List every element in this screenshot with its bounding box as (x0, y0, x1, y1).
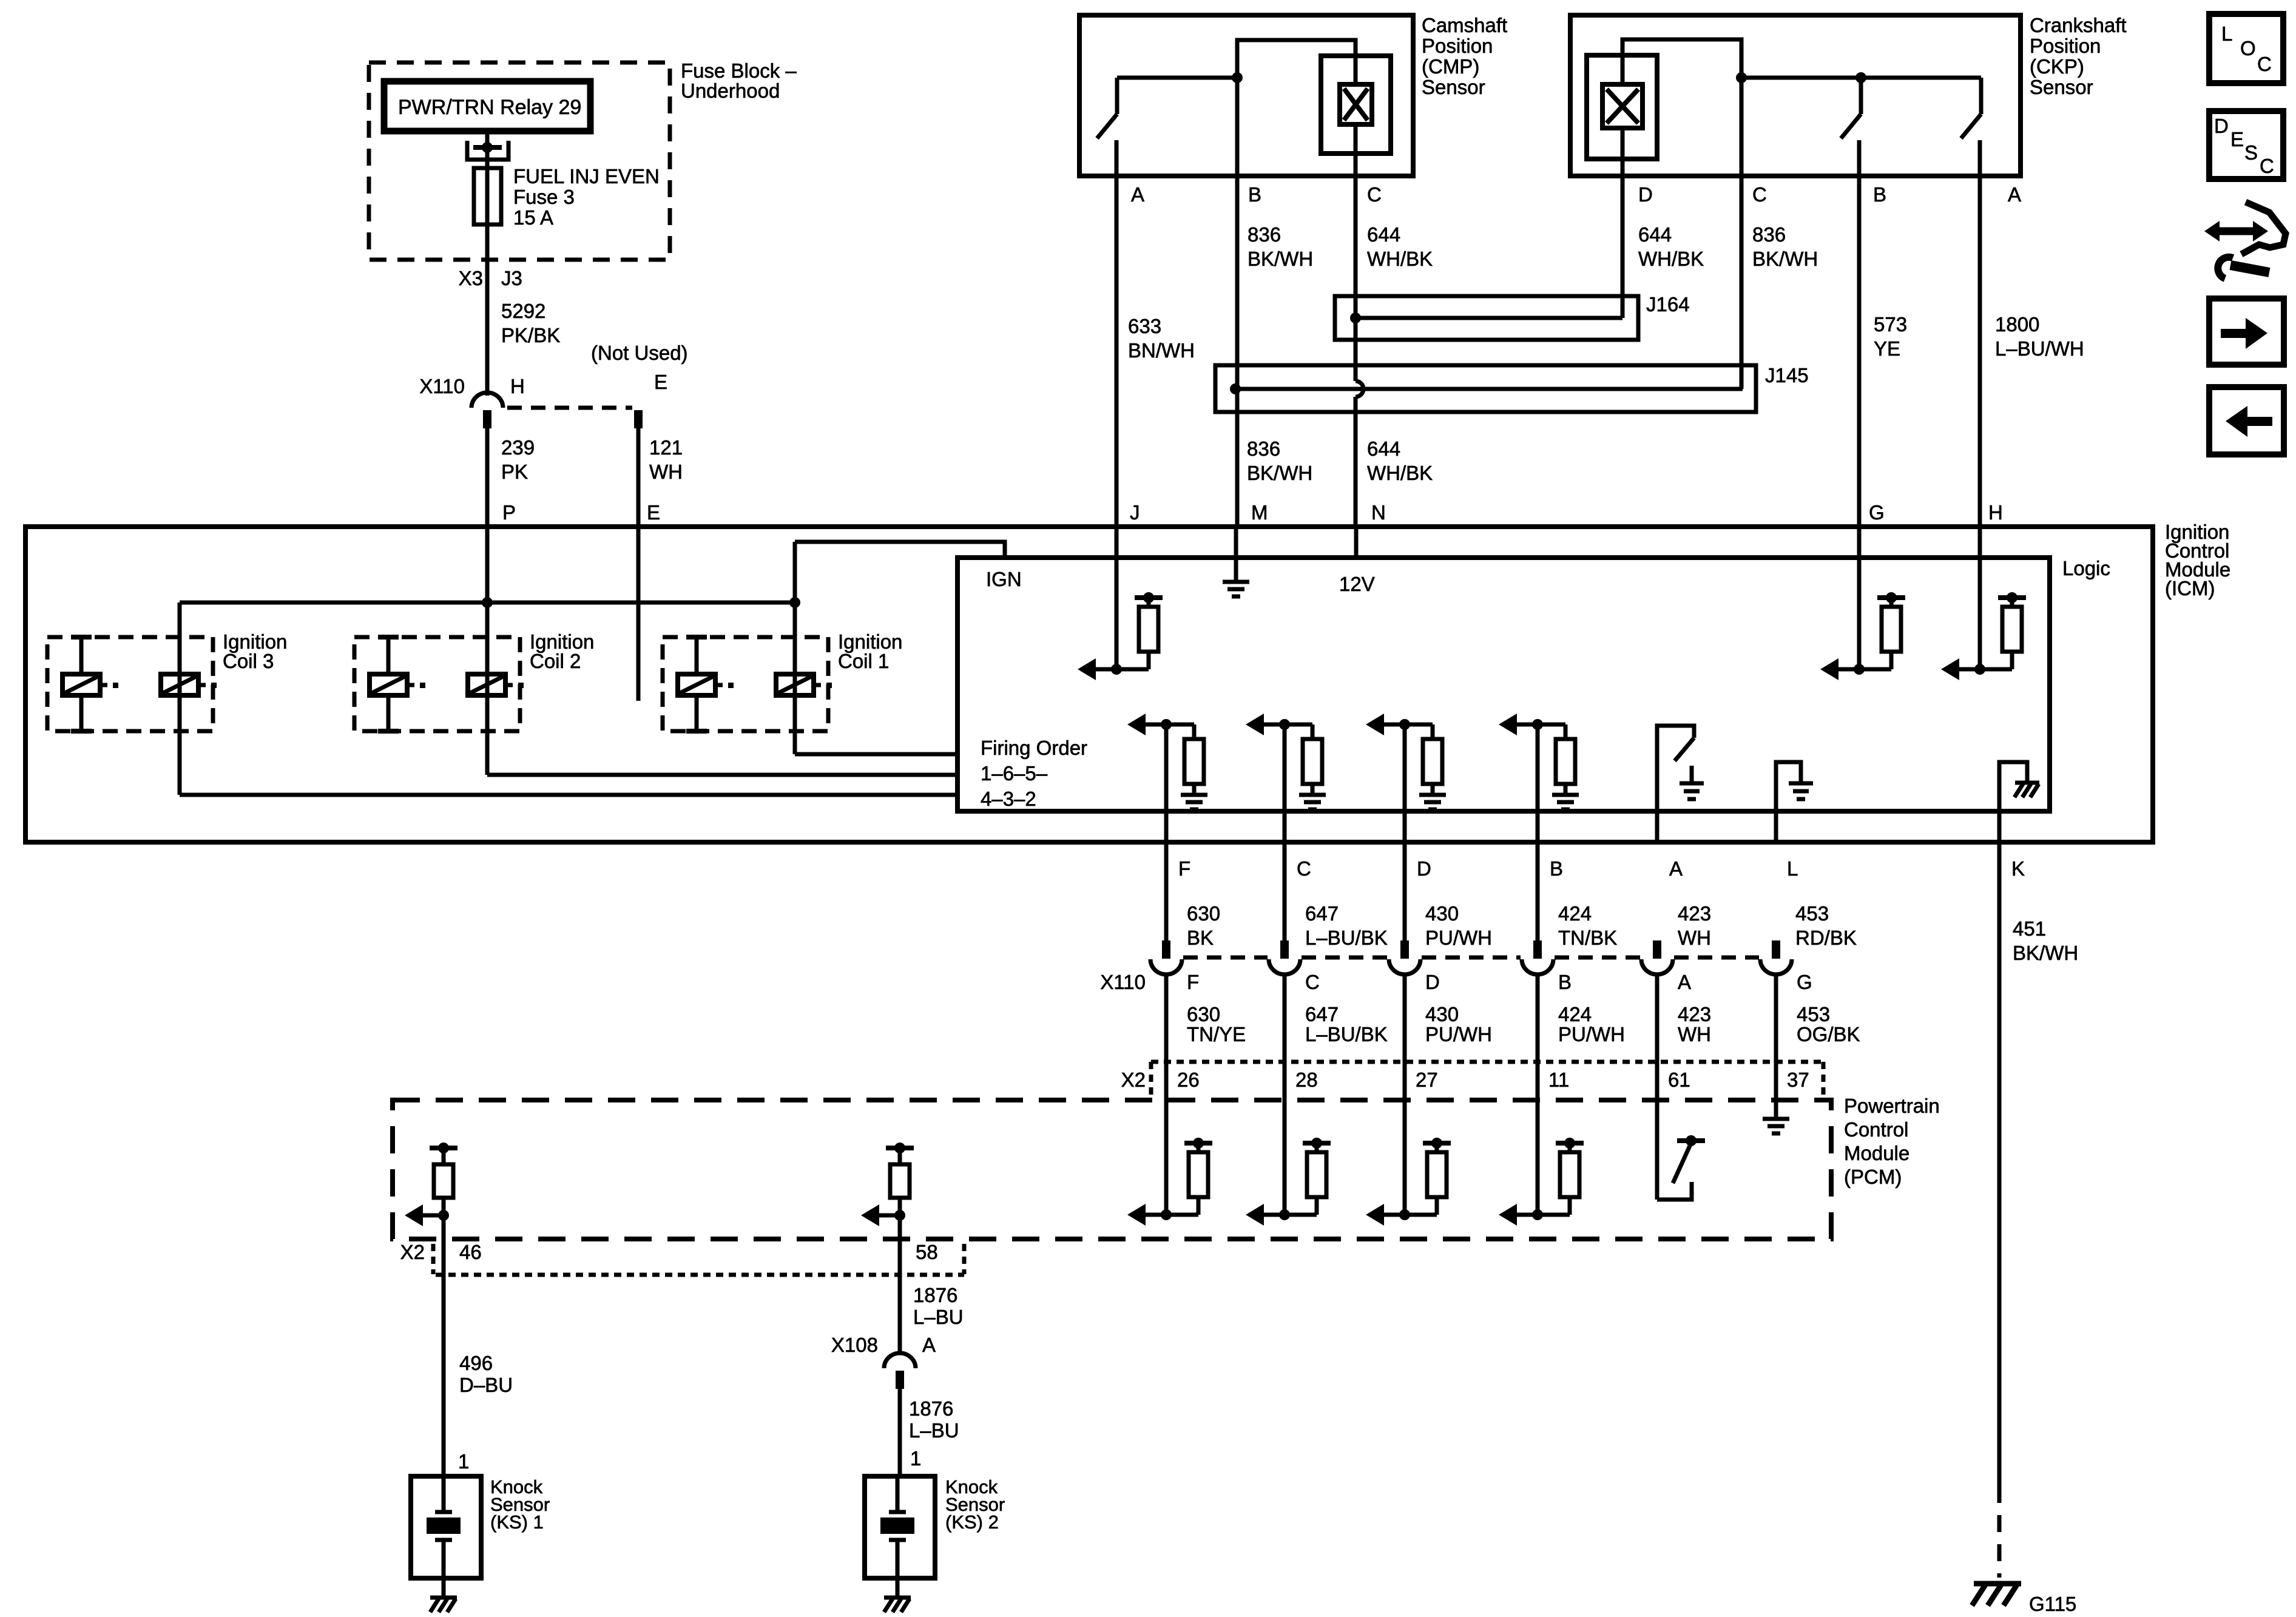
connector X110 pin A (1653, 940, 1661, 959)
svg-text:1–6–5–: 1–6–5– (981, 762, 1048, 785)
svg-text:A: A (922, 1334, 936, 1356)
fuse FUEL INJ EVEN Fuse 3 15A (474, 168, 501, 224)
splice J164 box (1335, 296, 1638, 340)
wire coil2 secondary (485, 603, 490, 775)
connector X110 pin G (1772, 940, 1780, 959)
svg-text:1: 1 (910, 1447, 921, 1470)
wire M to ground (1234, 527, 1238, 581)
connector X110 pin F (1162, 940, 1170, 959)
wire coil1 secondary (793, 542, 797, 754)
svg-text:PU/WH: PU/WH (1558, 1023, 1625, 1045)
wire PCM input 27 (1403, 1100, 1407, 1215)
svg-text:P: P (502, 501, 516, 524)
svg-text:B: B (1550, 857, 1563, 880)
svg-text:496: 496 (459, 1352, 493, 1374)
wire 451 BK/WH (1997, 842, 2002, 1486)
PCM resistor unit 28 (1246, 1204, 1264, 1226)
dashed connector line H-E (507, 406, 632, 410)
logic box (957, 558, 2050, 811)
svg-text:H: H (510, 375, 525, 397)
svg-text:121: 121 (649, 436, 683, 459)
coil 1 secondary winding (776, 674, 814, 695)
svg-text:26: 26 (1177, 1068, 1200, 1091)
CKP sensing element X box (1602, 84, 1643, 128)
svg-text:C: C (1305, 971, 1320, 993)
svg-text:4–3–2: 4–3–2 (981, 788, 1036, 810)
resistor unit CKP 573 (1820, 658, 1838, 680)
svg-text:J: J (1130, 501, 1140, 524)
wire 121 WH (636, 428, 641, 527)
svg-text:Sensor: Sensor (1422, 76, 1485, 98)
wire coil2 to logic (487, 773, 957, 777)
svg-text:WH: WH (1678, 1023, 1711, 1045)
logic driver unit C (1246, 714, 1264, 735)
svg-text:(KS) 2: (KS) 2 (945, 1511, 999, 1533)
svg-text:Underhood: Underhood (681, 79, 780, 102)
svg-text:(PCM): (PCM) (1844, 1166, 1902, 1188)
CMP internal line (1117, 76, 1237, 80)
svg-text:C: C (1367, 183, 1382, 206)
svg-text:G: G (1869, 501, 1885, 524)
svg-text:IGN: IGN (986, 568, 1022, 590)
CKP link line (1622, 39, 1741, 78)
svg-text:PK/BK: PK/BK (501, 324, 560, 346)
svg-text:L–BU: L–BU (909, 1419, 959, 1442)
CMP X mark (1344, 89, 1368, 120)
svg-text:E: E (654, 371, 667, 393)
svg-text:(CMP): (CMP) (1422, 55, 1479, 78)
svg-text:BK/WH: BK/WH (1247, 462, 1312, 484)
svg-text:Position: Position (1422, 35, 1493, 57)
svg-text:L–BU/BK: L–BU/BK (1305, 927, 1388, 949)
svg-text:647: 647 (1305, 902, 1339, 925)
PCM resistor unit 11 (1499, 1204, 1517, 1226)
wire coil3 to logic (180, 793, 957, 797)
svg-text:G115: G115 (2029, 1593, 2076, 1615)
svg-text:PWR/TRN Relay 29: PWR/TRN Relay 29 (398, 96, 581, 119)
KS 1 chassis ground (430, 1596, 457, 1600)
wire 836 BK/WH CKP pin C to J145 (1740, 78, 1744, 389)
junction CKP C (1736, 72, 1747, 83)
PCM knock sensor unit KS1 (430, 1146, 458, 1150)
connector X110 pin C (1280, 940, 1289, 959)
wire PCM input 37 (1774, 1100, 1778, 1118)
dashed connector line X110 (1422, 956, 1521, 960)
wire logic out C (1283, 724, 1287, 940)
svg-text:27: 27 (1416, 1068, 1438, 1091)
svg-text:644: 644 (1367, 437, 1400, 460)
coil 2 secondary winding (468, 674, 505, 695)
svg-text:A: A (1678, 971, 1691, 993)
wire E not used stub (636, 527, 641, 701)
svg-text:Coil 2: Coil 2 (530, 650, 581, 672)
wire 451 dashed to ground (1997, 1486, 2002, 1578)
wire hop over J145 line (1356, 381, 1363, 397)
svg-text:C: C (1752, 183, 1767, 206)
svg-text:644: 644 (1638, 223, 1672, 246)
CMP sensing element outer (1321, 56, 1391, 154)
camshaft position sensor box (1079, 15, 1413, 176)
coil 1 primary winding (686, 635, 707, 640)
svg-text:F: F (1187, 971, 1199, 993)
svg-text:630: 630 (1187, 1003, 1220, 1025)
svg-text:46: 46 (459, 1241, 482, 1263)
svg-text:430: 430 (1425, 902, 1459, 925)
junction J164 (1350, 312, 1361, 323)
wire PCM input 11 (1536, 1100, 1540, 1215)
svg-text:BK/WH: BK/WH (2013, 942, 2078, 964)
svg-text:A: A (2008, 183, 2021, 206)
svg-text:58: 58 (916, 1241, 938, 1263)
wire logic out F (1164, 724, 1169, 940)
wire coil1 to logic (795, 752, 957, 757)
wire 1876 L-BU upper (898, 1239, 902, 1354)
wire G inside logic (1857, 527, 1862, 669)
junction bus coil1 (789, 597, 800, 608)
svg-text:H: H (1988, 501, 2003, 524)
svg-text:X108: X108 (831, 1334, 878, 1356)
J145 internal line (1235, 387, 1743, 391)
service icon arrows and wrench (2215, 228, 2258, 235)
svg-text:Module: Module (1844, 1142, 1909, 1164)
wire through fuse (485, 168, 490, 224)
wire fuse to X110 H (485, 150, 490, 396)
logic driver unit B (1499, 714, 1517, 735)
wire coil3 secondary (178, 603, 182, 795)
svg-text:D: D (1417, 857, 1431, 880)
svg-text:Firing Order: Firing Order (981, 737, 1087, 759)
svg-text:J145: J145 (1765, 364, 1809, 387)
back arrow (2246, 417, 2272, 426)
resistor unit IGN input (1078, 658, 1096, 680)
X2 lower left bracket (431, 1244, 436, 1274)
svg-text:L: L (1787, 857, 1798, 880)
svg-text:633: 633 (1128, 315, 1161, 337)
wire 496 D-BU (442, 1239, 446, 1476)
svg-text:(KS) 1: (KS) 1 (490, 1511, 544, 1533)
KS 1 piezo element (442, 1476, 446, 1512)
CKP hall switch 1 (1859, 78, 1863, 114)
KS 2 chassis ground (884, 1596, 911, 1600)
svg-text:BN/WH: BN/WH (1128, 339, 1195, 362)
svg-text:Coil 3: Coil 3 (223, 650, 274, 672)
X2 lower right bracket (962, 1244, 967, 1274)
coil 3 primary winding (71, 635, 92, 640)
connector X110 pin D (1400, 940, 1409, 959)
svg-text:TN/YE: TN/YE (1187, 1023, 1246, 1045)
svg-text:647: 647 (1305, 1003, 1339, 1025)
dashed connector line X110 (1302, 956, 1388, 960)
svg-text:PU/WH: PU/WH (1425, 1023, 1492, 1045)
svg-text:D: D (1425, 971, 1440, 993)
svg-text:Fuse Block –: Fuse Block – (681, 59, 797, 82)
X2 right bracket (1822, 1062, 1826, 1098)
X2 left bracket (1149, 1062, 1153, 1098)
DESC nav box (2209, 111, 2283, 179)
svg-text:TN/BK: TN/BK (1558, 927, 1617, 949)
svg-text:Logic: Logic (2062, 557, 2110, 579)
svg-text:453: 453 (1797, 1003, 1830, 1025)
svg-text:L–BU/BK: L–BU/BK (1305, 1023, 1388, 1045)
svg-text:5292: 5292 (501, 300, 545, 322)
svg-text:836: 836 (1752, 223, 1786, 246)
svg-text:PK: PK (501, 461, 528, 483)
fuse block - underhood box (369, 62, 670, 260)
knock sensor KS 1 box (411, 1476, 481, 1578)
svg-text:424: 424 (1558, 1003, 1592, 1025)
svg-text:X2: X2 (1121, 1068, 1146, 1091)
svg-text:644: 644 (1367, 223, 1400, 246)
svg-text:X110: X110 (419, 375, 465, 397)
wire 573 YE pin B to G (1857, 140, 1862, 527)
svg-text:Fuse 3: Fuse 3 (513, 186, 575, 208)
svg-text:(Not Used): (Not Used) (591, 342, 688, 364)
svg-text:B: B (1558, 971, 1572, 993)
svg-text:451: 451 (2013, 917, 2046, 940)
knock sensor KS 2 box (865, 1476, 935, 1578)
ignition coil 1 box (663, 637, 828, 731)
svg-text:L: L (2221, 22, 2232, 45)
wire H inside logic (1978, 527, 1982, 669)
junction CKP B (1855, 72, 1866, 83)
wire logic out B (1536, 724, 1540, 940)
svg-text:E: E (647, 501, 660, 524)
CKP X mark (1607, 89, 1638, 123)
crankshaft position sensor box (1570, 15, 2021, 176)
svg-text:573: 573 (1874, 313, 1907, 336)
wire to PCM (1655, 974, 1660, 1100)
logic chassis ground unit K (1999, 762, 2027, 842)
forward arrow nav box (2209, 299, 2284, 365)
svg-text:YE: YE (1874, 337, 1900, 360)
CKP internal line (1741, 76, 1981, 80)
KS 2 piezo element (896, 1476, 900, 1512)
svg-text:D–BU: D–BU (459, 1374, 513, 1396)
svg-text:11: 11 (1548, 1068, 1569, 1091)
svg-text:Powertrain: Powertrain (1844, 1095, 1940, 1117)
svg-text:430: 430 (1425, 1003, 1459, 1025)
PCM resistor unit 27 (1366, 1204, 1384, 1226)
svg-text:B: B (1873, 183, 1886, 206)
wire relay to fuse holder (485, 131, 490, 143)
svg-text:D: D (2214, 115, 2229, 137)
connector X110 pin H (471, 393, 503, 408)
wire 239 PK (485, 428, 490, 603)
svg-text:61: 61 (1668, 1068, 1690, 1091)
wire PCM input 26 (1164, 1100, 1169, 1215)
wire to PCM (1774, 974, 1778, 1100)
dashed connector line X110 (1674, 956, 1759, 960)
svg-text:1800: 1800 (1995, 313, 2039, 336)
powertrain control module box (393, 1100, 1831, 1239)
ignition coil 2 box (354, 637, 520, 731)
logic switch unit A (1657, 726, 1694, 842)
PWR/TRN Relay 29 box (384, 81, 590, 131)
svg-text:G: G (1797, 971, 1812, 993)
CMP sensing element X box (1340, 84, 1372, 124)
forward arrow (2221, 329, 2247, 338)
junction CMP B (1232, 72, 1243, 83)
wire logic out D (1403, 724, 1407, 940)
fuse holder bracket (467, 141, 508, 160)
wire J inside logic (1115, 527, 1119, 669)
junction J145 (1230, 383, 1241, 394)
svg-text:BK/WH: BK/WH (1752, 248, 1818, 270)
svg-text:WH: WH (1678, 927, 1711, 949)
svg-text:Sensor: Sensor (2030, 76, 2093, 98)
svg-text:O: O (2240, 37, 2256, 59)
svg-text:28: 28 (1295, 1068, 1318, 1091)
wire PCM input 61 (1655, 1100, 1660, 1200)
svg-text:630: 630 (1187, 902, 1220, 925)
svg-text:BK/WH: BK/WH (1248, 248, 1313, 270)
svg-text:A: A (1131, 183, 1144, 206)
CMP link to sensing element (1237, 40, 1356, 78)
wire to PCM (1283, 974, 1287, 1100)
PCM knock sensor unit KS2 (886, 1146, 914, 1150)
coil 3 secondary winding (161, 674, 198, 695)
svg-text:D: D (1638, 183, 1653, 206)
svg-text:C: C (2260, 155, 2274, 177)
svg-text:239: 239 (501, 436, 535, 459)
CMP hall switch (1115, 78, 1119, 114)
coil 2 primary winding (378, 635, 399, 640)
wire 644 WH/BK CKP pin D to J164 (1621, 55, 1625, 318)
svg-text:OG/BK: OG/BK (1797, 1023, 1860, 1045)
wire to PCM (1536, 974, 1540, 1100)
connector X108 pin A (884, 1353, 916, 1368)
wire PCM input 28 (1283, 1100, 1287, 1215)
ICM 12V bus (180, 601, 795, 605)
IGN feed to logic (795, 542, 1005, 558)
PCM resistor unit 26 (1127, 1204, 1146, 1226)
logic ground unit L (1776, 762, 1801, 842)
back arrow nav box (2209, 387, 2284, 454)
logic driver unit F (1127, 714, 1146, 735)
svg-text:WH: WH (649, 461, 683, 483)
svg-text:A: A (1669, 857, 1683, 880)
svg-text:836: 836 (1247, 437, 1280, 460)
dotted connector line X2 (1151, 1060, 1823, 1064)
svg-text:WH/BK: WH/BK (1367, 462, 1433, 484)
ignition control module box (25, 527, 2153, 842)
svg-text:(CKP): (CKP) (2030, 55, 2084, 78)
svg-text:1: 1 (458, 1450, 469, 1473)
svg-text:836: 836 (1248, 223, 1281, 246)
svg-text:Coil 1: Coil 1 (838, 650, 889, 672)
resistor unit CKP 1800 (1941, 658, 1959, 680)
svg-text:WH/BK: WH/BK (1638, 248, 1704, 270)
wire 1876 L-BU lower (898, 1388, 902, 1476)
fuse bus bar (473, 145, 502, 150)
CKP sensing element outer (1587, 55, 1657, 159)
svg-text:1876: 1876 (913, 1284, 957, 1306)
svg-text:423: 423 (1678, 1003, 1711, 1025)
svg-text:J164: J164 (1646, 293, 1690, 316)
svg-text:C: C (1297, 857, 1311, 880)
svg-text:BK: BK (1187, 927, 1214, 949)
svg-text:424: 424 (1558, 902, 1592, 925)
splice J145 box (1215, 365, 1756, 412)
CKP hall switch 2 (1979, 78, 1984, 114)
wire N to logic 12V (1354, 527, 1359, 558)
svg-text:RD/BK: RD/BK (1795, 927, 1857, 949)
svg-text:L–BU: L–BU (913, 1306, 964, 1328)
dashed connector line X110 (1183, 956, 1268, 960)
logic driver unit D (1366, 714, 1384, 735)
wire to PCM (1164, 974, 1169, 1100)
svg-text:PU/WH: PU/WH (1425, 927, 1492, 949)
svg-text:Camshaft: Camshaft (1422, 14, 1507, 36)
junction bus coil2 (482, 597, 493, 608)
svg-text:C: C (2257, 53, 2272, 75)
svg-text:FUEL INJ EVEN: FUEL INJ EVEN (513, 165, 660, 187)
wire 633 BN/WH pin A to J (1115, 140, 1119, 527)
connector X110 pin E blade (634, 410, 643, 428)
dotted connector line X2 lower (436, 1273, 964, 1277)
junction fuse feed (482, 142, 493, 153)
ignition coil 3 box (47, 637, 213, 731)
svg-text:M: M (1251, 501, 1268, 524)
ground G115 (1974, 1581, 2021, 1587)
svg-text:423: 423 (1678, 902, 1711, 925)
wire to PCM (1403, 974, 1407, 1100)
connector X110 pin B (1533, 940, 1542, 959)
svg-text:E: E (2230, 128, 2244, 150)
svg-text:X110: X110 (1100, 971, 1146, 993)
svg-text:Position: Position (2030, 35, 2101, 57)
svg-text:N: N (1371, 501, 1386, 524)
wire 644 WH/BK pin C (with hop at J145) (1354, 40, 1358, 381)
svg-text:453: 453 (1795, 902, 1829, 925)
svg-text:X3: X3 (459, 267, 483, 289)
dashed connector line X110 (1555, 956, 1640, 960)
svg-text:(ICM): (ICM) (2165, 577, 2215, 599)
LOC nav box (2209, 14, 2283, 83)
svg-text:L–BU/WH: L–BU/WH (1995, 337, 2084, 360)
svg-text:K: K (2011, 857, 2025, 880)
svg-text:WH/BK: WH/BK (1367, 248, 1433, 270)
svg-text:S: S (2244, 141, 2258, 164)
svg-text:B: B (1248, 183, 1261, 206)
svg-text:12V: 12V (1339, 573, 1375, 595)
J164 internal line (1356, 316, 1622, 320)
svg-text:37: 37 (1787, 1068, 1809, 1091)
wire 836 BK/WH pin B to M (1235, 78, 1240, 527)
wire 1800 L-BU/WH pin A to H (1978, 140, 1982, 527)
svg-text:Control: Control (1844, 1118, 1908, 1141)
svg-text:X2: X2 (400, 1241, 425, 1263)
svg-text:1876: 1876 (909, 1397, 953, 1420)
svg-text:Crankshaft: Crankshaft (2030, 14, 2127, 36)
svg-text:F: F (1178, 857, 1190, 880)
svg-text:15 A: 15 A (513, 206, 553, 229)
svg-text:J3: J3 (501, 267, 522, 289)
